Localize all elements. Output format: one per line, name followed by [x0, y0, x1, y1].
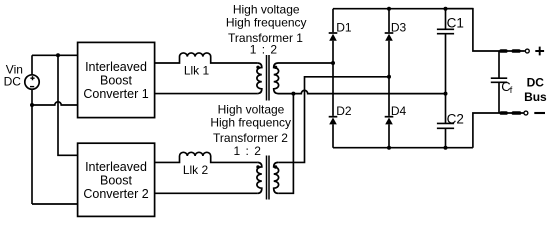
capacitor Cf leg [498, 51, 500, 113]
node junction (389,76.8) [387, 75, 391, 79]
converter box 1 [78, 42, 155, 117]
svg-text:Converter 1: Converter 1 [83, 87, 148, 101]
converter box 2 [78, 143, 155, 216]
diode D4 [385, 116, 394, 118]
wire source top [31, 55, 33, 75]
wire sec2-top up x304.5 to D3D4 leg [278, 77, 389, 163]
node junction (389,147.7) [387, 146, 391, 150]
bridge top rail [333, 8, 473, 10]
capacitor Cf plates [491, 78, 507, 82]
transformer T1 core [267, 55, 270, 101]
svg-text:Converter 2: Converter 2 [83, 187, 148, 201]
svg-text:High voltage: High voltage [218, 103, 285, 117]
T1 primary phase dot [256, 66, 259, 69]
node junction (293.4, 93.6) [291, 92, 295, 96]
T2 primary phase dot [256, 165, 259, 168]
diode D1 [329, 32, 338, 34]
svg-text:DC: DC [527, 75, 545, 89]
svg-text:Bus: Bus [524, 90, 547, 104]
transformer T2 secondary winding [274, 162, 279, 193]
node junction (389,8.7) [387, 7, 391, 11]
wire y105 with hop over x58 [32, 102, 78, 105]
svg-text:1 : 2: 1 : 2 [234, 144, 262, 158]
svg-text:D3: D3 [391, 20, 407, 34]
bridge bottom rail [333, 147, 473, 149]
wire box2 lower output [155, 192, 258, 194]
node junction (445.5,8.7) [444, 7, 448, 11]
wire x58 down to box2 upper input [58, 55, 78, 155]
terminal - circle [524, 111, 528, 115]
transformer T1 secondary winding + top lead to bridge + bottom lead to C mid rail (hop over x304.5) [274, 63, 446, 94]
svg-text:High frequency: High frequency [210, 115, 291, 129]
svg-text:DC: DC [4, 75, 22, 89]
svg-text:D4: D4 [391, 104, 407, 118]
node junction sec1 top to bridge left leg [331, 61, 335, 65]
bridge left leg wire [332, 9, 334, 148]
capacitor C2 [437, 123, 454, 128]
wire top output [446, 9, 525, 51]
svg-text:D1: D1 [336, 20, 352, 34]
wire x293.4 link sec1-bottom to sec2-bottom [278, 94, 293, 194]
node junction (58,55) [56, 53, 60, 57]
wire top y55 [32, 54, 78, 56]
bus dash marks top [499, 49, 507, 53]
terminal + circle [525, 49, 529, 53]
wire y205 to box2 lower input [32, 203, 78, 205]
diode D2 [329, 116, 338, 118]
plus sign [535, 47, 544, 56]
node junction (32,105) [30, 103, 34, 107]
wire box2 upper output + inductor Llk2 [155, 152, 258, 162]
wire box1 upper output + inductor Llk1 [155, 53, 258, 63]
node junction (445.5,147.7) [444, 146, 448, 150]
svg-text:High frequency: High frequency [226, 16, 307, 30]
svg-text:Boost: Boost [100, 74, 132, 88]
svg-text:Transformer 2: Transformer 2 [213, 131, 288, 145]
capacitor C1 [437, 29, 454, 33]
svg-text:Llk 1: Llk 1 [184, 63, 210, 77]
wire source bottom [31, 89, 33, 204]
svg-text:Boost: Boost [100, 174, 132, 188]
T1 secondary phase dot [274, 66, 277, 69]
T2 secondary phase dot [274, 165, 277, 168]
minus sign [534, 112, 545, 114]
node junction (445.5, 93.6) [444, 92, 448, 96]
svg-text:D2: D2 [336, 104, 352, 118]
diode D3 [385, 32, 394, 34]
wire box1 lower output [155, 93, 258, 95]
svg-text:C1: C1 [447, 15, 464, 30]
source Vin DC [25, 75, 39, 89]
bus dash marks bottom [500, 111, 508, 115]
svg-text:Llk 2: Llk 2 [183, 163, 209, 177]
transformer T2 core [267, 156, 270, 200]
svg-text:C2: C2 [447, 112, 464, 127]
svg-text:Interleaved: Interleaved [85, 60, 147, 74]
transformer T2 primary winding [257, 162, 262, 193]
capacitor leg wire [445, 9, 447, 148]
svg-text:Interleaved: Interleaved [85, 160, 147, 174]
transformer T1 primary winding [257, 63, 262, 94]
bridge middle leg wire [388, 9, 390, 148]
svg-text:High voltage: High voltage [233, 3, 300, 17]
svg-text:1 : 2: 1 : 2 [250, 43, 278, 57]
wire bottom output [473, 113, 524, 148]
